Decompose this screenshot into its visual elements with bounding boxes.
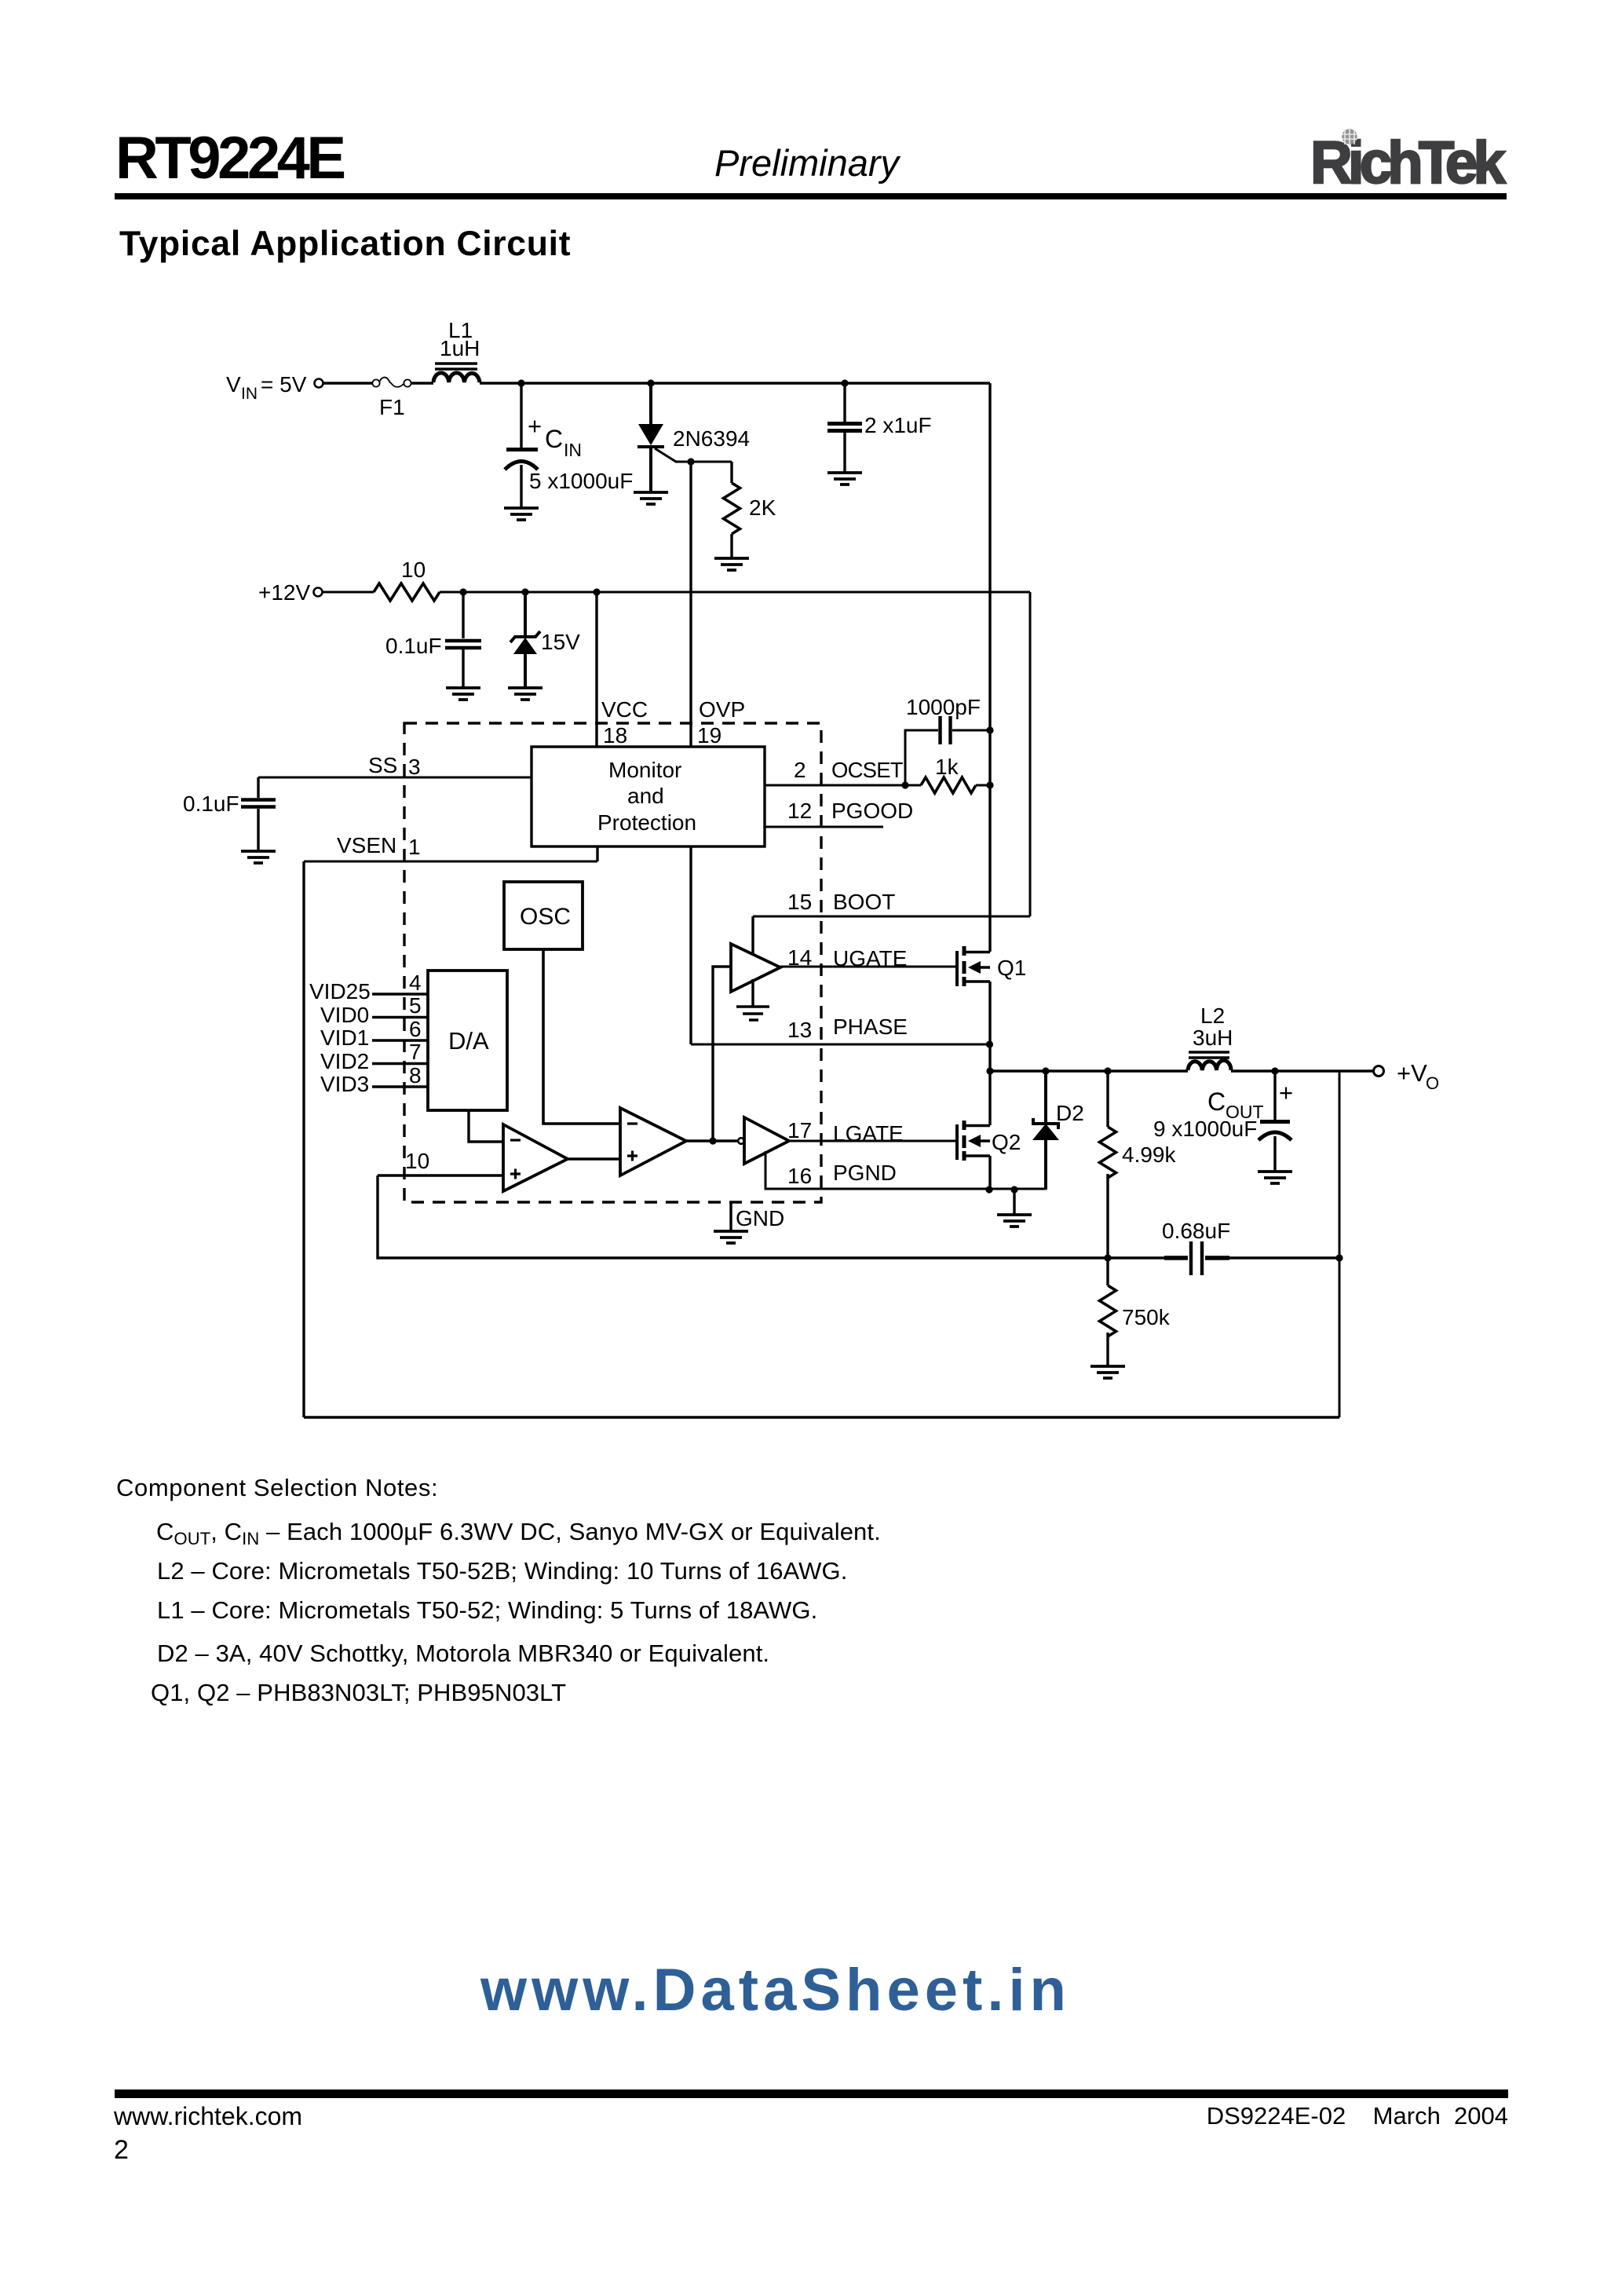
svg-text:PHASE: PHASE xyxy=(833,1015,908,1039)
svg-text:BOOT: BOOT xyxy=(833,890,895,914)
wire Q2 source to ground node xyxy=(988,1156,991,1190)
svg-text:17: 17 xyxy=(787,1118,812,1143)
svg-text:LGATE: LGATE xyxy=(833,1121,904,1146)
svg-text:15: 15 xyxy=(787,890,812,914)
svg-text:Q1: Q1 xyxy=(997,956,1026,980)
ground 2N6394 xyxy=(634,492,668,504)
node 1000pF right junction xyxy=(986,726,993,733)
note Q1 Q2 xyxy=(151,1679,566,1706)
capacitor 2x1uF xyxy=(827,385,932,472)
note COUT CIN xyxy=(156,1518,881,1548)
node 4.99k top junction xyxy=(1104,1067,1111,1074)
wire LGATE pin 17 xyxy=(787,1118,957,1146)
svg-text:2 x1uF: 2 x1uF xyxy=(864,413,932,437)
wire 5V rail down to Q1 drain xyxy=(988,383,991,952)
svg-text:VID1: VID1 xyxy=(320,1026,369,1050)
svg-text:L2 – Core: Micrometals T50-52B: L2 – Core: Micrometals T50-52B; Winding:… xyxy=(157,1557,847,1585)
wire monitor to PHASE xyxy=(689,846,692,1044)
node SCR gate junction xyxy=(687,458,694,465)
capacitor CIN xyxy=(505,385,633,507)
note L2 xyxy=(157,1557,847,1585)
footer page number xyxy=(114,2135,129,2165)
wire VID3 pin 8 xyxy=(320,1063,428,1096)
svg-text:Q1, Q2 – PHB83N03LT; PHB95N03L: Q1, Q2 – PHB83N03LT; PHB95N03LT xyxy=(151,1679,566,1706)
svg-text:18: 18 xyxy=(603,723,627,748)
svg-text:Monitor: Monitor xyxy=(608,758,681,782)
svg-text:VID3: VID3 xyxy=(320,1072,369,1096)
wire error amp to comparator xyxy=(568,1157,620,1160)
node SCR anode junction xyxy=(647,379,654,386)
ground power stage xyxy=(997,1190,1032,1227)
wire Q2 drain xyxy=(988,1071,991,1125)
wire D/A output xyxy=(469,1110,503,1142)
svg-text:4: 4 xyxy=(409,971,422,995)
block OSC xyxy=(504,882,583,949)
footer site xyxy=(113,2102,302,2130)
zener diode 15V xyxy=(510,594,580,687)
ground zener xyxy=(508,688,542,700)
wire VID0 pin 5 xyxy=(320,993,428,1027)
footer rule xyxy=(115,2089,1508,2098)
wire Q1 source to phase rail xyxy=(988,982,991,1071)
capacitor 0.1uF (12V) xyxy=(385,594,481,687)
svg-text:5 x1000uF: 5 x1000uF xyxy=(529,469,633,493)
capacitor 0.68uF xyxy=(1162,1219,1339,1275)
ground 750k xyxy=(1090,1366,1125,1378)
capacitor 1000pF xyxy=(905,695,990,785)
node COUT junction xyxy=(1271,1067,1278,1074)
svg-text:D/A: D/A xyxy=(448,1027,489,1055)
svg-text:0.1uF: 0.1uF xyxy=(385,634,442,658)
resistor 2K xyxy=(691,462,776,558)
wire 12V down to BOOT xyxy=(1029,592,1032,916)
wire VCC pin 18 xyxy=(597,592,648,748)
svg-text:8: 8 xyxy=(409,1063,422,1088)
node 2x1uF junction xyxy=(841,379,848,386)
svg-text:3uH: 3uH xyxy=(1193,1026,1233,1050)
ground 0.1uF (12V) xyxy=(446,688,480,700)
svg-text:+V: +V xyxy=(1397,1059,1427,1087)
wire VSEN loop left xyxy=(302,861,305,1417)
ground GND pin xyxy=(714,1202,784,1243)
wire comparator output xyxy=(686,1139,738,1142)
svg-text:UGATE: UGATE xyxy=(833,946,907,971)
svg-text:2: 2 xyxy=(114,2135,129,2165)
wire VID2 pin 7 xyxy=(320,1040,428,1073)
svg-text:2N6394: 2N6394 xyxy=(673,426,750,451)
node VCC junction xyxy=(593,588,600,595)
svg-text:F1: F1 xyxy=(379,395,405,419)
ground 2x1uF xyxy=(827,473,862,484)
svg-text:= 5V: = 5V xyxy=(261,372,307,397)
wire feedback top branch xyxy=(1339,1071,1341,1417)
svg-text:L1 – Core: Micrometals T50-52;: L1 – Core: Micrometals T50-52; Winding: … xyxy=(157,1596,817,1624)
header subtitle Preliminary xyxy=(714,142,901,184)
svg-text:2: 2 xyxy=(794,758,806,782)
svg-text:and: and xyxy=(627,784,664,808)
svg-text:1uH: 1uH xyxy=(440,336,480,360)
wire UGATE pin 14 xyxy=(780,945,957,971)
note L1 xyxy=(157,1596,817,1624)
terminal +12V xyxy=(258,580,323,605)
svg-text:D2 – 3A, 40V Schottky, Motorol: D2 – 3A, 40V Schottky, Motorola MBR340 o… xyxy=(157,1640,769,1667)
wire BOOT pin 15 xyxy=(753,890,1030,953)
wire phase rail to L2 xyxy=(990,1069,1188,1072)
svg-text:www.DataSheet.in: www.DataSheet.in xyxy=(480,1957,1071,2024)
node 0.68uF right junction xyxy=(1335,1254,1343,1261)
resistor 4.99k xyxy=(1100,1071,1177,1258)
wire VID25 pin 4 xyxy=(309,971,428,1004)
wire pin10 to compensation xyxy=(378,1175,1188,1258)
ground 0.1uF (SS) xyxy=(241,851,276,863)
wire L2 to +VO xyxy=(1231,1069,1373,1072)
node D2 top junction xyxy=(1042,1067,1049,1074)
svg-text:10: 10 xyxy=(405,1149,429,1173)
node power ground junction xyxy=(1010,1186,1017,1193)
svg-text:O: O xyxy=(1426,1073,1439,1093)
node OCSET junction xyxy=(901,781,908,788)
IC dashed boundary xyxy=(404,723,821,1202)
svg-text:5: 5 xyxy=(409,993,422,1018)
block Monitor and Protection xyxy=(532,747,765,846)
ground UGATE driver xyxy=(736,979,769,1020)
node compensation junction xyxy=(1104,1254,1111,1261)
node PHASE junction xyxy=(986,1040,993,1047)
node PWM output junction xyxy=(709,1137,716,1144)
svg-text:10: 10 xyxy=(401,558,426,582)
wire SS pin 3 xyxy=(258,753,532,779)
svg-text:VCC: VCC xyxy=(601,697,648,722)
svg-text:0.68uF: 0.68uF xyxy=(1162,1219,1230,1243)
svg-text:Protection: Protection xyxy=(597,810,696,835)
svg-text:19: 19 xyxy=(697,723,721,748)
svg-text:1: 1 xyxy=(408,835,421,859)
node 0.1uF junction xyxy=(459,588,466,595)
svg-text:6: 6 xyxy=(409,1017,422,1041)
svg-text:0.1uF: 0.1uF xyxy=(183,792,239,816)
wire PWM to UGATE driver xyxy=(713,967,731,1141)
wire VSEN riser to monitor block xyxy=(596,846,598,861)
svg-text:14: 14 xyxy=(787,945,812,970)
wire pin 10 xyxy=(378,1149,503,1175)
svg-text:SS: SS xyxy=(368,753,397,777)
wire L1 to 5V rail corner xyxy=(480,382,990,384)
svg-text:15V: 15V xyxy=(541,630,580,654)
buffer LGATE driver with bubble xyxy=(738,1117,789,1164)
svg-text:OSC: OSC xyxy=(520,904,571,930)
ground CIN xyxy=(504,508,539,520)
label OVP pin 19 xyxy=(697,697,745,748)
wire OSC to comparator xyxy=(543,949,620,1124)
svg-text:2K: 2K xyxy=(749,495,776,520)
svg-text:3: 3 xyxy=(408,755,421,779)
wire VID1 pin 6 xyxy=(320,1017,428,1050)
svg-text:OVP: OVP xyxy=(699,697,745,722)
svg-text:Typical Application Circuit: Typical Application Circuit xyxy=(119,225,571,263)
node Q2 source junction xyxy=(985,1186,992,1193)
watermark www.DataSheet.in xyxy=(480,1957,1071,2024)
svg-text:9 x1000uF: 9 x1000uF xyxy=(1153,1117,1257,1141)
wire gate node down to OVP pin 19 xyxy=(689,462,692,747)
svg-text:13: 13 xyxy=(787,1018,812,1042)
svg-text:+: + xyxy=(1279,1079,1293,1106)
wire fuse to L1 xyxy=(411,382,433,385)
node zener junction xyxy=(521,588,528,595)
svg-text:1k: 1k xyxy=(935,755,959,779)
svg-text:V: V xyxy=(226,372,241,397)
svg-text:VSEN: VSEN xyxy=(337,833,396,857)
transistor Q2 xyxy=(957,1121,1021,1161)
svg-text:D2: D2 xyxy=(1056,1101,1084,1125)
svg-text:DS9224E-02 March 2004: DS9224E-02 March 2004 xyxy=(1207,2102,1508,2130)
svg-text:+: + xyxy=(528,412,542,440)
wire VIN to fuse xyxy=(323,382,372,385)
svg-text:IN: IN xyxy=(564,440,582,460)
svg-text:7: 7 xyxy=(409,1040,422,1064)
svg-text:1000pF: 1000pF xyxy=(906,695,981,719)
wire PGND pin 16 xyxy=(765,1151,1046,1189)
capacitor 0.1uF (SS) xyxy=(183,777,276,850)
capacitor COUT xyxy=(1153,1073,1293,1171)
wire PGOOD pin 12 stub xyxy=(765,799,913,827)
svg-text:RichTek: RichTek xyxy=(1310,129,1506,196)
svg-text:PGND: PGND xyxy=(833,1161,897,1185)
inductor L2 3uH xyxy=(1188,1004,1233,1070)
footer docnum xyxy=(1207,2102,1508,2130)
svg-text:VID0: VID0 xyxy=(320,1003,369,1027)
svg-text:RT9224E: RT9224E xyxy=(115,125,344,192)
thyristor 2N6394 xyxy=(637,383,750,492)
wire OCSET pin 2 xyxy=(765,758,921,785)
terminal VIN xyxy=(226,372,323,403)
header title RT9224E xyxy=(115,125,344,192)
header rule xyxy=(115,193,1507,199)
svg-text:+12V: +12V xyxy=(258,580,310,605)
svg-text:VID2: VID2 xyxy=(320,1049,369,1073)
svg-text:Component Selection Notes:: Component Selection Notes: xyxy=(116,1474,438,1501)
node CIN junction xyxy=(517,379,524,386)
svg-text:Preliminary: Preliminary xyxy=(714,142,901,184)
svg-text:OCSET: OCSET xyxy=(831,758,904,782)
svg-text:L2: L2 xyxy=(1200,1004,1225,1028)
buffer UGATE driver xyxy=(731,944,780,992)
inductor L1 1uH xyxy=(433,318,480,382)
wire VSEN pin 1 xyxy=(304,833,597,861)
svg-text:750k: 750k xyxy=(1122,1305,1171,1329)
svg-text:4.99k: 4.99k xyxy=(1122,1143,1176,1167)
svg-text:GND: GND xyxy=(736,1206,784,1230)
resistor 10 xyxy=(374,558,440,601)
svg-text:C: C xyxy=(1207,1088,1226,1116)
svg-text:PGOOD: PGOOD xyxy=(831,799,913,823)
svg-text:www.richtek.com: www.richtek.com xyxy=(113,2102,302,2130)
ground 2K xyxy=(714,558,749,570)
RichTek logo xyxy=(1310,129,1506,196)
note D2 xyxy=(157,1640,769,1667)
resistor 1k xyxy=(921,755,990,793)
section heading xyxy=(119,225,571,263)
svg-text:Q2: Q2 xyxy=(992,1130,1021,1154)
wire 12V rail xyxy=(440,591,1030,594)
wire PHASE pin 13 xyxy=(691,1015,989,1044)
wire feedback bottom xyxy=(304,1416,1339,1418)
op-amp PWM comparator xyxy=(620,1108,686,1175)
svg-text:COUT, CIN – Each 1000µF 6.3WV: COUT, CIN – Each 1000µF 6.3WV DC, Sanyo … xyxy=(156,1518,881,1548)
terminal +VO xyxy=(1374,1059,1440,1093)
svg-text:IN: IN xyxy=(241,385,258,403)
svg-text:VID25: VID25 xyxy=(309,979,371,1004)
svg-text:16: 16 xyxy=(787,1164,812,1188)
op-amp error amplifier xyxy=(503,1124,568,1191)
node 1k right junction xyxy=(986,781,993,788)
transistor Q1 xyxy=(957,946,1026,986)
diode D2 xyxy=(1032,1071,1084,1190)
ground COUT xyxy=(1258,1172,1292,1183)
svg-text:12: 12 xyxy=(787,799,812,823)
fuse F1 xyxy=(372,378,411,419)
block D/A xyxy=(428,971,507,1110)
resistor 750k xyxy=(1100,1258,1171,1366)
node phase rail junction xyxy=(986,1067,993,1074)
svg-text:C: C xyxy=(545,425,563,453)
wire +12V to R10 xyxy=(323,591,374,594)
notes heading xyxy=(116,1474,438,1501)
